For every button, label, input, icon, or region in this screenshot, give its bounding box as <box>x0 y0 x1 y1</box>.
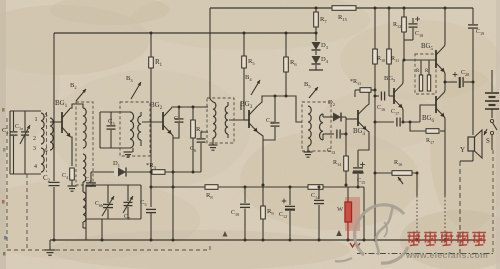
svg-text:C14: C14 <box>311 193 320 200</box>
svg-text:2: 2 <box>33 136 36 142</box>
svg-text:C1a: C1a <box>15 124 23 131</box>
svg-text:Y: Y <box>460 146 465 154</box>
svg-text:*R11: *R11 <box>350 79 361 86</box>
svg-text:C6b: C6b <box>95 201 103 208</box>
svg-text:C18: C18 <box>415 31 423 38</box>
svg-text:1: 1 <box>35 117 38 123</box>
svg-text:C20: C20 <box>461 70 469 77</box>
svg-text:W: W <box>337 206 344 213</box>
svg-text:R17: R17 <box>426 138 434 145</box>
svg-text:3: 3 <box>33 146 36 152</box>
svg-text:C16: C16 <box>377 105 385 112</box>
svg-text:C4: C4 <box>62 173 69 180</box>
svg-text:C11: C11 <box>266 118 274 125</box>
svg-text:S: S <box>486 137 490 145</box>
svg-text:C15: C15 <box>357 178 365 185</box>
svg-text:C12: C12 <box>279 212 287 219</box>
svg-text:R16: R16 <box>394 160 402 167</box>
svg-text:R11: R11 <box>391 56 399 63</box>
svg-text:www.elecfans.com: www.elecfans.com <box>405 250 488 260</box>
svg-text:C17: C17 <box>391 109 399 116</box>
svg-text:R14: R14 <box>333 160 342 167</box>
svg-text:R12: R12 <box>393 22 401 29</box>
svg-text:C7: C7 <box>124 214 130 221</box>
svg-text:C10: C10 <box>231 210 239 217</box>
svg-text:C13: C13 <box>327 148 335 155</box>
svg-text:4: 4 <box>34 164 37 170</box>
svg-text:C19: C19 <box>476 29 484 36</box>
svg-text:C5: C5 <box>174 116 180 123</box>
svg-text:R10: R10 <box>377 56 385 63</box>
svg-text:6: 6 <box>45 148 48 154</box>
svg-text:C6: C6 <box>190 146 196 153</box>
svg-text:C4: C4 <box>85 177 92 184</box>
svg-text:5: 5 <box>45 113 48 119</box>
